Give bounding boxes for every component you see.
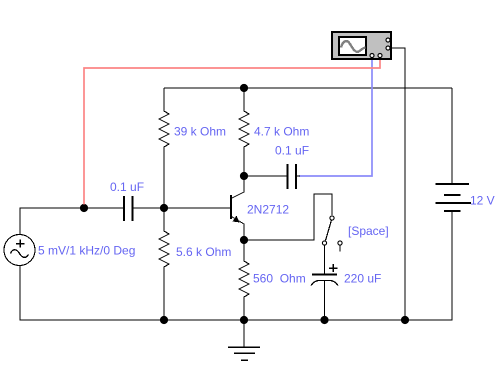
svg-text:5 mV/1 kHz/0 Deg: 5 mV/1 kHz/0 Deg xyxy=(38,244,135,258)
oscilloscope XSC1 xyxy=(332,32,391,59)
resistor R3 xyxy=(159,208,169,320)
node collector rail xyxy=(240,84,248,92)
svg-text:0.1 uF: 0.1 uF xyxy=(275,144,309,158)
wire switch to C3 xyxy=(324,245,326,274)
node ground rail left xyxy=(160,316,168,324)
node ground rail right xyxy=(401,316,409,324)
svg-text:4.7 k Ohm: 4.7 k Ohm xyxy=(254,125,309,139)
wire blue scope A xyxy=(299,58,372,176)
resistor R2 xyxy=(239,88,249,176)
node input xyxy=(80,204,88,212)
wire top rail xyxy=(164,87,452,89)
wire collector to C2 xyxy=(244,175,287,177)
capacitor C1 xyxy=(124,196,133,221)
wire base row xyxy=(133,207,232,209)
resistor R4 xyxy=(239,240,249,320)
ground xyxy=(228,320,260,360)
node ground rail cap xyxy=(320,316,328,324)
wire red scope B xyxy=(84,58,380,205)
svg-text:39 k Ohm: 39 k Ohm xyxy=(174,125,226,139)
switch S1 xyxy=(322,216,342,252)
svg-text:5.6 k Ohm: 5.6 k Ohm xyxy=(176,245,231,259)
svg-text:0.1 uF: 0.1 uF xyxy=(110,180,144,194)
svg-text:12 V: 12 V xyxy=(470,194,495,208)
node collector xyxy=(240,172,248,180)
wire input top xyxy=(20,208,124,235)
AC source V1 xyxy=(4,235,35,266)
wire emitter to switch xyxy=(244,194,332,240)
wire bottom rail xyxy=(20,211,452,320)
capacitor C2 xyxy=(288,164,297,189)
svg-text:[Space]: [Space] xyxy=(348,224,389,238)
wire scope ground xyxy=(391,48,405,320)
svg-text:220 uF: 220 uF xyxy=(344,272,381,286)
capacitor C3 xyxy=(311,264,338,320)
battery V2 xyxy=(436,88,472,211)
node emitter xyxy=(240,236,248,244)
svg-text:2N2712: 2N2712 xyxy=(247,203,289,217)
svg-text:560 Ohm: 560 Ohm xyxy=(253,272,306,286)
transistor Q1 xyxy=(231,176,244,240)
node B xyxy=(160,204,168,212)
node ground rail center xyxy=(240,316,248,324)
resistor R1 xyxy=(159,88,169,208)
